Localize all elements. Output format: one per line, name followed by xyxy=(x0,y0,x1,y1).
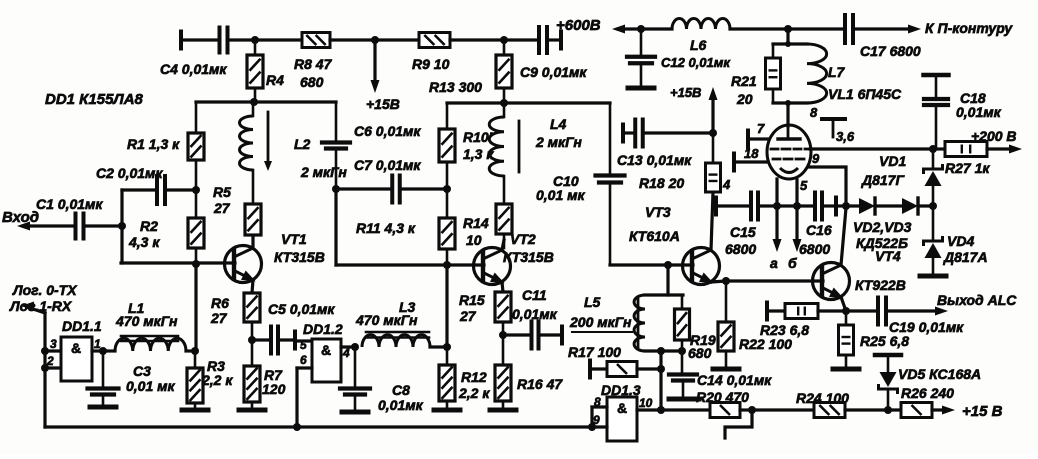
tube pin 7 lead xyxy=(748,121,768,148)
svg-text:R20 470: R20 470 xyxy=(696,389,749,405)
svg-text:C2 0,01мк: C2 0,01мк xyxy=(96,165,163,181)
node VT3 base / L5 xyxy=(664,261,672,269)
resistor R18 xyxy=(639,134,721,192)
svg-text:4: 4 xyxy=(342,346,350,360)
tube VL1 cathode xyxy=(780,168,798,173)
svg-text:Д817Г: Д817Г xyxy=(861,172,905,188)
svg-text:2 мкГн: 2 мкГн xyxy=(535,134,582,150)
tube pin 8 grid cap xyxy=(810,105,845,137)
gate DD1.1 pin 2 xyxy=(41,354,61,372)
diode VD3 xyxy=(902,198,933,214)
zener VD1 xyxy=(861,149,943,206)
wire L5/R19 top bar xyxy=(645,293,683,296)
svg-text:2,2 к: 2,2 к xyxy=(458,385,490,401)
svg-text:2 мкГн: 2 мкГн xyxy=(300,164,347,180)
node L5 bottom xyxy=(657,347,665,355)
capacitor C17 xyxy=(788,15,921,59)
transistor VT1 xyxy=(225,231,325,283)
svg-text:L7: L7 xyxy=(828,64,846,80)
resistor R24 xyxy=(796,390,888,418)
svg-text:б: б xyxy=(788,255,797,271)
node top-rail/R4 xyxy=(251,36,259,44)
svg-text:470 мкГн: 470 мкГн xyxy=(115,313,178,329)
svg-text:КТ315В: КТ315В xyxy=(274,249,325,265)
svg-text:R14: R14 xyxy=(463,215,489,231)
node L1/R3 xyxy=(191,347,199,355)
wire R11 column to L3 xyxy=(445,265,448,347)
tube VL1 envelope xyxy=(767,86,902,179)
capacitor C9 xyxy=(504,27,587,80)
capacitor C10 xyxy=(536,103,625,265)
tube pin 5 heater lead xyxy=(793,178,809,252)
wire VT2 base line xyxy=(336,263,484,266)
transistor VT3 collector xyxy=(692,192,713,259)
svg-text:C1 0,01мк: C1 0,01мк xyxy=(36,196,103,212)
svg-text:&: & xyxy=(617,400,627,416)
resistor R13 xyxy=(429,40,512,103)
svg-text:C9 0,01мк: C9 0,01мк xyxy=(520,64,587,80)
transistor VT3 emitter xyxy=(692,272,726,283)
ground C12 xyxy=(628,86,654,91)
svg-text:10: 10 xyxy=(639,396,653,410)
wire VT1 base to L1 xyxy=(194,264,197,351)
resistor R23 xyxy=(760,303,846,339)
svg-text:R15: R15 xyxy=(459,292,485,308)
label VT4 xyxy=(875,248,901,264)
svg-text:680: 680 xyxy=(300,74,324,90)
svg-text:4: 4 xyxy=(722,177,731,192)
resistor R8 xyxy=(294,33,333,91)
node R17/L5 xyxy=(657,365,665,373)
wire input arrow xyxy=(17,222,74,231)
resistor R16 xyxy=(495,335,563,407)
svg-text:R26 240: R26 240 xyxy=(901,385,954,401)
wire R20-R24 xyxy=(752,408,814,411)
svg-text:а: а xyxy=(770,255,778,271)
node input xyxy=(118,222,126,230)
ground R25 xyxy=(833,367,859,372)
resistor R11 xyxy=(356,189,455,265)
wire VT1 base line xyxy=(121,261,235,264)
capacitor C11 xyxy=(503,287,562,349)
svg-text:6800: 6800 xyxy=(725,241,756,257)
zener VD4 xyxy=(924,206,988,273)
zener VD5 xyxy=(875,355,981,410)
node R6/R7/C5 xyxy=(248,336,256,344)
resistor R12 xyxy=(439,347,490,407)
gate DD1.3 pin 9 xyxy=(592,407,607,427)
svg-text:18: 18 xyxy=(744,146,759,161)
wire ALC output arrow xyxy=(935,292,1017,316)
tube VL1 grid 2 dashes xyxy=(773,158,804,161)
capacitor C19 xyxy=(846,298,964,336)
svg-text:C6 0,01мк: C6 0,01мк xyxy=(354,123,421,139)
node R19/C14 xyxy=(678,347,686,355)
svg-text:R6: R6 xyxy=(211,295,229,311)
ground R7 xyxy=(239,408,265,413)
resistor R21 xyxy=(731,44,781,107)
resistor R1 xyxy=(127,102,204,190)
node VD3/VD1/VD4 xyxy=(929,202,937,210)
svg-text:R24 100: R24 100 xyxy=(796,390,849,406)
svg-text:R25 6,8: R25 6,8 xyxy=(860,333,909,349)
svg-text:VT1: VT1 xyxy=(281,231,307,247)
label DD1 К155ЛА8 xyxy=(45,91,144,108)
svg-text:КТ610А: КТ610А xyxy=(629,228,680,244)
svg-text:R21: R21 xyxy=(731,73,757,89)
label a xyxy=(770,255,778,271)
node VT1 base xyxy=(192,260,200,268)
gate DD1.1 xyxy=(61,318,102,381)
svg-text:L5: L5 xyxy=(584,294,601,310)
svg-text:7: 7 xyxy=(757,121,765,136)
node screen/C18/R27 xyxy=(929,145,937,153)
wire C6 riser to VT2 base xyxy=(334,189,337,265)
svg-text:R22 100: R22 100 xyxy=(739,336,792,352)
svg-text:C14 0,01мк: C14 0,01мк xyxy=(697,372,772,388)
node C12/L6 xyxy=(637,25,645,33)
inductor L1 xyxy=(103,300,195,351)
svg-text:R9 10: R9 10 xyxy=(412,56,450,72)
node R13/L4 rail xyxy=(500,99,508,107)
svg-text:2,2 к: 2,2 к xyxy=(201,372,233,388)
ground R12 xyxy=(434,408,460,413)
label б xyxy=(788,255,797,271)
svg-text:VD1: VD1 xyxy=(879,153,906,169)
svg-text:R2: R2 xyxy=(140,218,158,234)
svg-text:9: 9 xyxy=(812,151,820,166)
label Вход xyxy=(2,209,39,226)
svg-text:C13 0,01мк: C13 0,01мк xyxy=(617,152,692,168)
ground C3 xyxy=(90,405,116,410)
wire rail C4-R8 xyxy=(255,38,302,41)
svg-text:L4: L4 xyxy=(550,116,567,132)
gate DD1.1 pin 3 xyxy=(41,337,61,355)
svg-text:8: 8 xyxy=(810,105,818,120)
svg-text:DD1.2: DD1.2 xyxy=(303,321,343,337)
diode VD2 xyxy=(846,198,902,214)
svg-text:+200 В: +200 В xyxy=(971,128,1017,144)
wire rail R9-C9 xyxy=(450,38,504,41)
svg-text:5: 5 xyxy=(300,338,307,352)
gate DD1.1 pin 1 output xyxy=(92,337,103,351)
transistor VT2 emitter xyxy=(483,272,505,292)
capacitor C15 xyxy=(716,193,777,258)
svg-text:Вход: Вход xyxy=(2,209,39,226)
resistor R26 xyxy=(888,385,954,418)
capacitor C18 xyxy=(924,75,1002,149)
svg-text:Выход ALC: Выход ALC xyxy=(937,292,1017,308)
label Лог.1-RX xyxy=(9,298,73,314)
svg-text:R11 4,3 к: R11 4,3 к xyxy=(356,220,416,236)
svg-text:VT2: VT2 xyxy=(510,231,536,247)
tube pin 9 lead xyxy=(809,151,846,206)
node pin4/C15 xyxy=(773,202,781,210)
capacitor C14 xyxy=(669,351,772,396)
wire tank to anode xyxy=(786,103,789,126)
resistor R22 xyxy=(718,281,792,366)
gate DD1.2 pin 4 output xyxy=(341,346,355,360)
power +15V arrow bottom xyxy=(942,403,1003,420)
capacitor C4 xyxy=(160,28,255,78)
node C6/C7 xyxy=(332,185,340,193)
svg-text:VL1 6П45С: VL1 6П45С xyxy=(828,86,902,102)
svg-text:R4: R4 xyxy=(266,72,284,88)
transistor VT2 xyxy=(474,231,554,285)
svg-text:КТ922В: КТ922В xyxy=(855,277,906,293)
svg-text:Д817А: Д817А xyxy=(943,249,988,265)
power +200V arrow xyxy=(971,128,1022,154)
tube pin 1,8 lead xyxy=(734,146,768,171)
svg-text:120: 120 xyxy=(262,381,286,397)
node bus/DD1.3 xyxy=(588,423,596,431)
svg-text:VT4: VT4 xyxy=(875,248,901,264)
ground C8 xyxy=(342,410,368,415)
node C16/VD2/VT4 collector xyxy=(842,202,850,210)
svg-text:+15В: +15В xyxy=(366,96,400,112)
power +600V label xyxy=(556,17,601,34)
svg-text:200 мкГн: 200 мкГн xyxy=(569,314,632,330)
svg-text:К П-контуру: К П-контуру xyxy=(925,20,1013,36)
wire screen grid line xyxy=(810,147,933,150)
svg-text:R16 47: R16 47 xyxy=(517,376,563,392)
resistor R2 xyxy=(128,190,204,264)
svg-text:0,01 мк: 0,01 мк xyxy=(126,378,175,394)
node R1/R2/C2 xyxy=(192,186,200,194)
tube VL1 grid 1 dashes xyxy=(771,148,809,151)
svg-text:C3: C3 xyxy=(133,363,151,379)
power +15V arrow (first stages) xyxy=(366,80,400,112)
transistor VT4 xyxy=(813,263,906,300)
svg-text:0,01мк: 0,01мк xyxy=(512,306,558,322)
svg-text:VD5 КС168А: VD5 КС168А xyxy=(898,366,981,382)
ground VD4 xyxy=(920,274,946,279)
resistor R15 xyxy=(459,292,511,335)
svg-text:6: 6 xyxy=(300,353,307,367)
node R10/R11/C7 xyxy=(443,185,451,193)
capacitor C3 xyxy=(88,351,176,404)
svg-text:L6: L6 xyxy=(690,37,707,53)
svg-text:DD1 К155ЛА8: DD1 К155ЛА8 xyxy=(45,91,144,108)
capacitor C6 xyxy=(322,102,421,189)
svg-text:680: 680 xyxy=(688,345,712,361)
svg-text:C11: C11 xyxy=(522,287,547,303)
node VT4 emitter xyxy=(842,307,850,315)
svg-text:Лог. 0-ТХ: Лог. 0-ТХ xyxy=(12,282,78,298)
svg-text:R13 300: R13 300 xyxy=(429,79,482,95)
svg-text:VT3: VT3 xyxy=(645,204,671,220)
svg-text:+600В: +600В xyxy=(556,17,601,34)
transistor VT2 collector xyxy=(483,240,504,259)
svg-text:0,01мк: 0,01мк xyxy=(378,397,424,413)
svg-text:+15 В: +15 В xyxy=(962,403,1003,420)
resistor R25 xyxy=(839,311,910,366)
svg-text:4,3 к: 4,3 к xyxy=(128,234,160,250)
transistor VT4 collector xyxy=(822,208,846,274)
node R20 right xyxy=(748,406,756,414)
label К П-контуру xyxy=(925,20,1013,36)
svg-text:L2: L2 xyxy=(294,136,311,152)
ground C14 xyxy=(669,397,699,402)
tube pin 4 heater lead xyxy=(722,177,782,252)
node L3/R12 xyxy=(443,343,451,351)
node pin5/C16 xyxy=(793,202,801,210)
ground R16 xyxy=(490,408,516,413)
wire L5 to gate row xyxy=(659,351,662,410)
svg-text:&: & xyxy=(71,340,81,356)
resistor R7 xyxy=(244,340,286,407)
svg-text:+15В: +15В xyxy=(670,85,701,100)
inductor L6 xyxy=(641,19,788,53)
wire stage2 rail xyxy=(447,101,610,104)
resistor R5 xyxy=(213,170,261,247)
capacitor C7 xyxy=(336,157,447,203)
transistor VT4 emitter xyxy=(822,287,846,311)
wire top rail input stub xyxy=(181,32,218,49)
resistor R20 xyxy=(696,389,752,418)
inductor L7 xyxy=(807,44,846,103)
svg-text:R12: R12 xyxy=(461,369,487,385)
node +15V tap xyxy=(371,36,379,44)
wire rail to R9 xyxy=(375,38,419,41)
wire output arrow to P-network xyxy=(908,25,921,34)
resistor R3 xyxy=(187,351,233,407)
svg-text:DD1.3: DD1.3 xyxy=(601,382,641,398)
capacitor C12 xyxy=(627,29,731,85)
wire L5/R19 bottom bar xyxy=(645,349,683,352)
svg-text:2: 2 xyxy=(46,354,54,368)
wire L5 stem xyxy=(666,265,669,295)
resistor R14 xyxy=(463,176,512,248)
wire C15-C16 xyxy=(777,204,814,207)
ground R22 xyxy=(713,367,739,372)
transistor VT1 emitter xyxy=(234,270,256,293)
resistor R4 xyxy=(247,40,284,102)
capacitor C5 xyxy=(252,301,335,354)
inductor L5 xyxy=(569,294,645,351)
svg-text:C16: C16 xyxy=(806,222,832,238)
gate DD1.2 xyxy=(303,321,343,382)
capacitor C13 xyxy=(617,120,713,169)
svg-text:R27 1к: R27 1к xyxy=(945,160,990,176)
node L2 top xyxy=(250,98,258,106)
svg-text:3,6: 3,6 xyxy=(836,129,855,144)
inductor L3 xyxy=(355,299,447,347)
svg-text:5: 5 xyxy=(800,178,808,193)
wire tank bottom bar xyxy=(773,100,807,106)
transistor VT1 collector xyxy=(234,236,253,257)
wire rail R8-R9 xyxy=(330,38,375,41)
svg-text:C5 0,01мк: C5 0,01мк xyxy=(268,301,335,317)
svg-text:6800: 6800 xyxy=(799,241,830,257)
wire tank top bar xyxy=(773,42,807,45)
resistor R10 xyxy=(439,103,494,189)
wire +15V stub xyxy=(373,40,376,85)
svg-text:C15: C15 xyxy=(730,224,756,240)
gate DD1.2 pin 6 xyxy=(297,353,312,427)
capacitor C2 xyxy=(96,165,196,204)
svg-text:R17 100: R17 100 xyxy=(568,344,621,360)
svg-text:20: 20 xyxy=(736,91,753,107)
svg-text:0,01 мк: 0,01 мк xyxy=(536,187,585,203)
capacitor C1 xyxy=(36,196,122,239)
svg-text:C7 0,01мк: C7 0,01мк xyxy=(354,157,421,173)
svg-text:8: 8 xyxy=(594,395,601,409)
tube VL1 anode xyxy=(778,126,800,139)
capacitor C8 xyxy=(340,347,424,413)
wire input riser xyxy=(120,190,123,263)
svg-text:R5: R5 xyxy=(213,184,231,200)
wire stage1 rail xyxy=(196,100,336,103)
svg-text:R8 47: R8 47 xyxy=(294,56,333,72)
gate DD1.2 pin 5 xyxy=(300,338,307,352)
wire bottom bus xyxy=(45,425,592,428)
node gate output/L5 xyxy=(657,406,665,414)
label Лог.0-ТХ xyxy=(12,282,78,298)
svg-text:27: 27 xyxy=(213,200,231,216)
wire +15V to R18 xyxy=(670,85,718,133)
wire stub below R20 xyxy=(725,410,752,438)
svg-text:C8: C8 xyxy=(392,382,410,398)
svg-text:C12 0,01мк: C12 0,01мк xyxy=(661,55,731,70)
resistor R27 xyxy=(933,142,1013,177)
node DD1.2 pin6 bus xyxy=(293,423,301,431)
svg-text:VD2,VD3: VD2,VD3 xyxy=(853,219,912,235)
svg-text:27: 27 xyxy=(210,310,228,326)
node R21/L7 top xyxy=(784,25,792,33)
node DD1.1 out / C3 / L1 xyxy=(99,347,107,355)
svg-text:R1 1,3 к: R1 1,3 к xyxy=(127,136,180,152)
node VT3 emitter xyxy=(722,277,730,285)
ground R3 xyxy=(182,408,208,413)
inductor L4 xyxy=(489,103,582,176)
transistor VT3 xyxy=(629,204,720,285)
svg-text:C4 0,01мк: C4 0,01мк xyxy=(160,61,227,77)
svg-text:470 мкГн: 470 мкГн xyxy=(355,312,418,328)
node DD1.2 out / L3 / C8 xyxy=(351,343,359,351)
wire VT4 base line xyxy=(726,279,823,282)
power +600V arrow xyxy=(612,25,641,34)
wire gate row to R20 xyxy=(661,408,710,411)
svg-text:C17 6800: C17 6800 xyxy=(860,43,921,59)
label КД522Б xyxy=(856,235,908,251)
svg-text:&: & xyxy=(321,342,331,358)
wire RX arrow xyxy=(21,302,45,428)
node R15/R16/C11 xyxy=(499,331,507,339)
gate DD1.3 pin 8 xyxy=(592,395,607,409)
svg-text:VD4: VD4 xyxy=(947,233,974,249)
resistor R19 xyxy=(675,295,716,361)
node C13/R18 xyxy=(709,129,717,137)
wire VT3 base line xyxy=(610,263,693,266)
svg-text:3: 3 xyxy=(50,337,57,351)
svg-text:R18 20: R18 20 xyxy=(639,175,684,191)
gate DD1.3 pin 10 output xyxy=(637,396,661,410)
svg-text:0,01мк: 0,01мк xyxy=(956,104,1002,120)
svg-text:DD1.1: DD1.1 xyxy=(62,318,102,334)
svg-text:КТ315В: КТ315В xyxy=(503,249,554,265)
svg-text:27: 27 xyxy=(459,308,477,324)
resistor R17 xyxy=(568,344,661,378)
capacitor C16 xyxy=(799,193,846,258)
resistor R9 xyxy=(412,33,450,73)
label VD2,VD3 xyxy=(853,219,912,235)
node VT2 base xyxy=(443,261,451,269)
label pin 3,6 xyxy=(836,129,855,144)
node VD5/R26 xyxy=(884,406,892,414)
resistor R6 xyxy=(210,293,260,340)
gate DD1.3 xyxy=(601,382,641,441)
